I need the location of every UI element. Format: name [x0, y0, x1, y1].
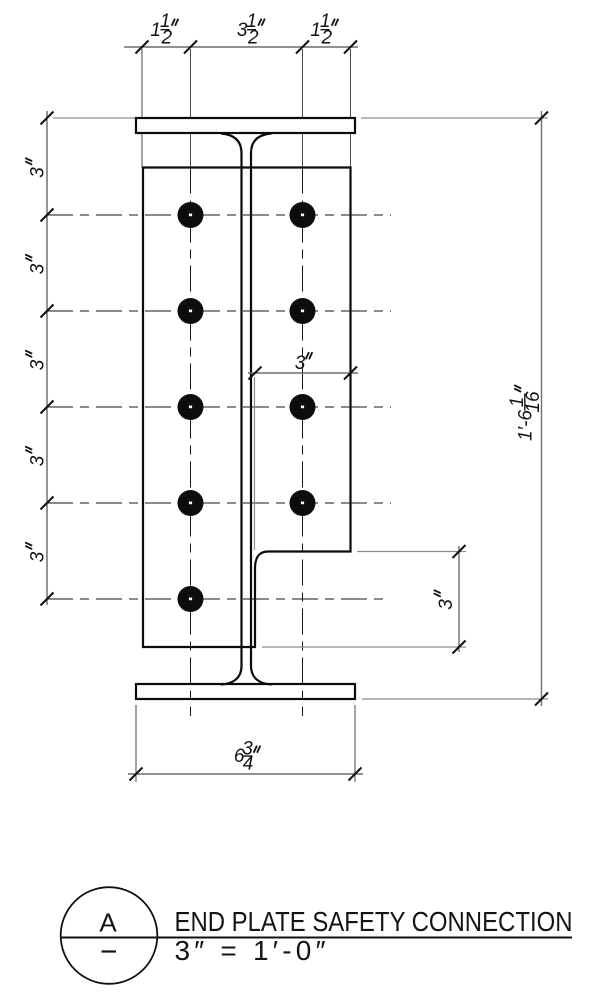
extension line bolt column 1 to top dim [190, 49, 192, 168]
tick top-1 [136, 41, 149, 54]
bolt B5 [178, 586, 204, 612]
label 3in (left space 5) [26, 543, 49, 562]
svg-text:16: 16 [523, 391, 544, 413]
extension line flange left to bottom dim [135, 705, 137, 782]
bolt row 3 centerline [47, 406, 391, 408]
bolt B4 [178, 490, 204, 516]
label 1-1/2in (right span) [310, 11, 338, 48]
extension line notch edge to right [357, 551, 466, 553]
bolt B2 [178, 298, 204, 324]
tick left-4 [41, 497, 54, 510]
label 3in (left space 2) [26, 255, 49, 274]
dimension line (top, 1-1/2in / 3-1/2in / 1-1/2in) [124, 46, 358, 48]
tick left-3 [41, 401, 54, 414]
tick bottom-right [349, 768, 362, 781]
dimension line (6-3/4in flange width) [128, 773, 363, 775]
detail bubble circle [61, 887, 158, 984]
tick bottom-left [130, 768, 143, 781]
extension line bolt column 2 to top dim [302, 49, 304, 168]
svg-text:3: 3 [28, 167, 49, 178]
tick lr-top [453, 545, 466, 558]
svg-text:2: 2 [321, 28, 333, 49]
svg-text:3: 3 [28, 455, 49, 466]
beam web left line with flange fillets [221, 134, 242, 685]
svg-text:A: A [99, 908, 117, 938]
tick mid-left [249, 367, 262, 380]
bolt B6 [290, 202, 316, 228]
bolt row 5 centerline [47, 598, 389, 600]
tick left-1 [41, 209, 54, 222]
extension line plate right edge to top dim [350, 49, 352, 168]
tick top-2 [184, 41, 197, 54]
tick top-4 [344, 41, 357, 54]
title underline through bubble [61, 937, 573, 939]
tick left-0 [41, 112, 54, 125]
extension line from plate left edge to top dim [141, 49, 143, 168]
label 3in (lower right) [434, 590, 457, 609]
svg-text:3: 3 [28, 551, 49, 562]
label 3in (left space 4) [26, 447, 49, 466]
extension line flange right to bottom dim [354, 705, 356, 782]
end plate (notched around web) [143, 168, 351, 648]
bolt B9 [290, 490, 316, 516]
sheet dash in bubble [102, 950, 117, 952]
extension line notch corner up to 3in dim [254, 377, 256, 550]
bolt B3 [178, 394, 204, 420]
bolt B1 [178, 202, 204, 228]
tick lr-bottom [453, 641, 466, 654]
dimension line (3in, web to plate edge) [248, 372, 358, 374]
dimension line (left, five 3in spaces) [46, 111, 48, 605]
svg-text:2: 2 [161, 28, 173, 49]
bolt row 2 centerline [47, 310, 391, 312]
svg-text:3: 3 [28, 359, 49, 370]
label 3-1/2in (middle span) [237, 11, 265, 48]
label 3in (left space 3) [26, 351, 49, 370]
svg-text:END PLATE SAFETY CONNECTION: END PLATE SAFETY CONNECTION [175, 906, 573, 937]
svg-text:3: 3 [295, 353, 306, 374]
tick left-5 [41, 593, 54, 606]
bolt B7 [290, 298, 316, 324]
dimension line (1ft-6 1/16in overall) [541, 111, 543, 706]
beam web right line with flange fillets [251, 134, 272, 685]
svg-text:2: 2 [247, 28, 259, 49]
label 3in (mid) [295, 353, 312, 374]
svg-text:3: 3 [28, 263, 49, 274]
top flange of beam [136, 118, 355, 133]
svg-text:1′-6: 1′-6 [516, 410, 537, 441]
extension line top flange to right dim [361, 117, 548, 119]
extension line plate bottom to right [262, 646, 466, 648]
label 3in (left space 1) [26, 158, 49, 177]
bolt row 4 centerline [47, 502, 391, 504]
svg-text:3: 3 [436, 599, 457, 610]
bolt column 2 centerline [302, 168, 304, 717]
dimension line (3in, notch to plate bottom) [458, 546, 460, 652]
bottom flange of beam [136, 684, 355, 699]
tick right-bottom [535, 693, 548, 706]
svg-text:4: 4 [243, 754, 254, 775]
bolt column 1 centerline [190, 168, 192, 717]
extension line bottom flange to right dim [362, 698, 548, 700]
tick top-3 [296, 41, 309, 54]
extension line top flange to left dim [53, 117, 136, 119]
tick left-2 [41, 305, 54, 318]
bolt B8 [290, 394, 316, 420]
label 1ft-6 1/16in [507, 386, 544, 442]
label 1-1/2in (left span) [150, 11, 178, 48]
tick right-top [535, 112, 548, 125]
bolt row 1 centerline [47, 214, 391, 216]
label 6-3/4in [234, 739, 260, 775]
tick mid-right [344, 367, 357, 380]
